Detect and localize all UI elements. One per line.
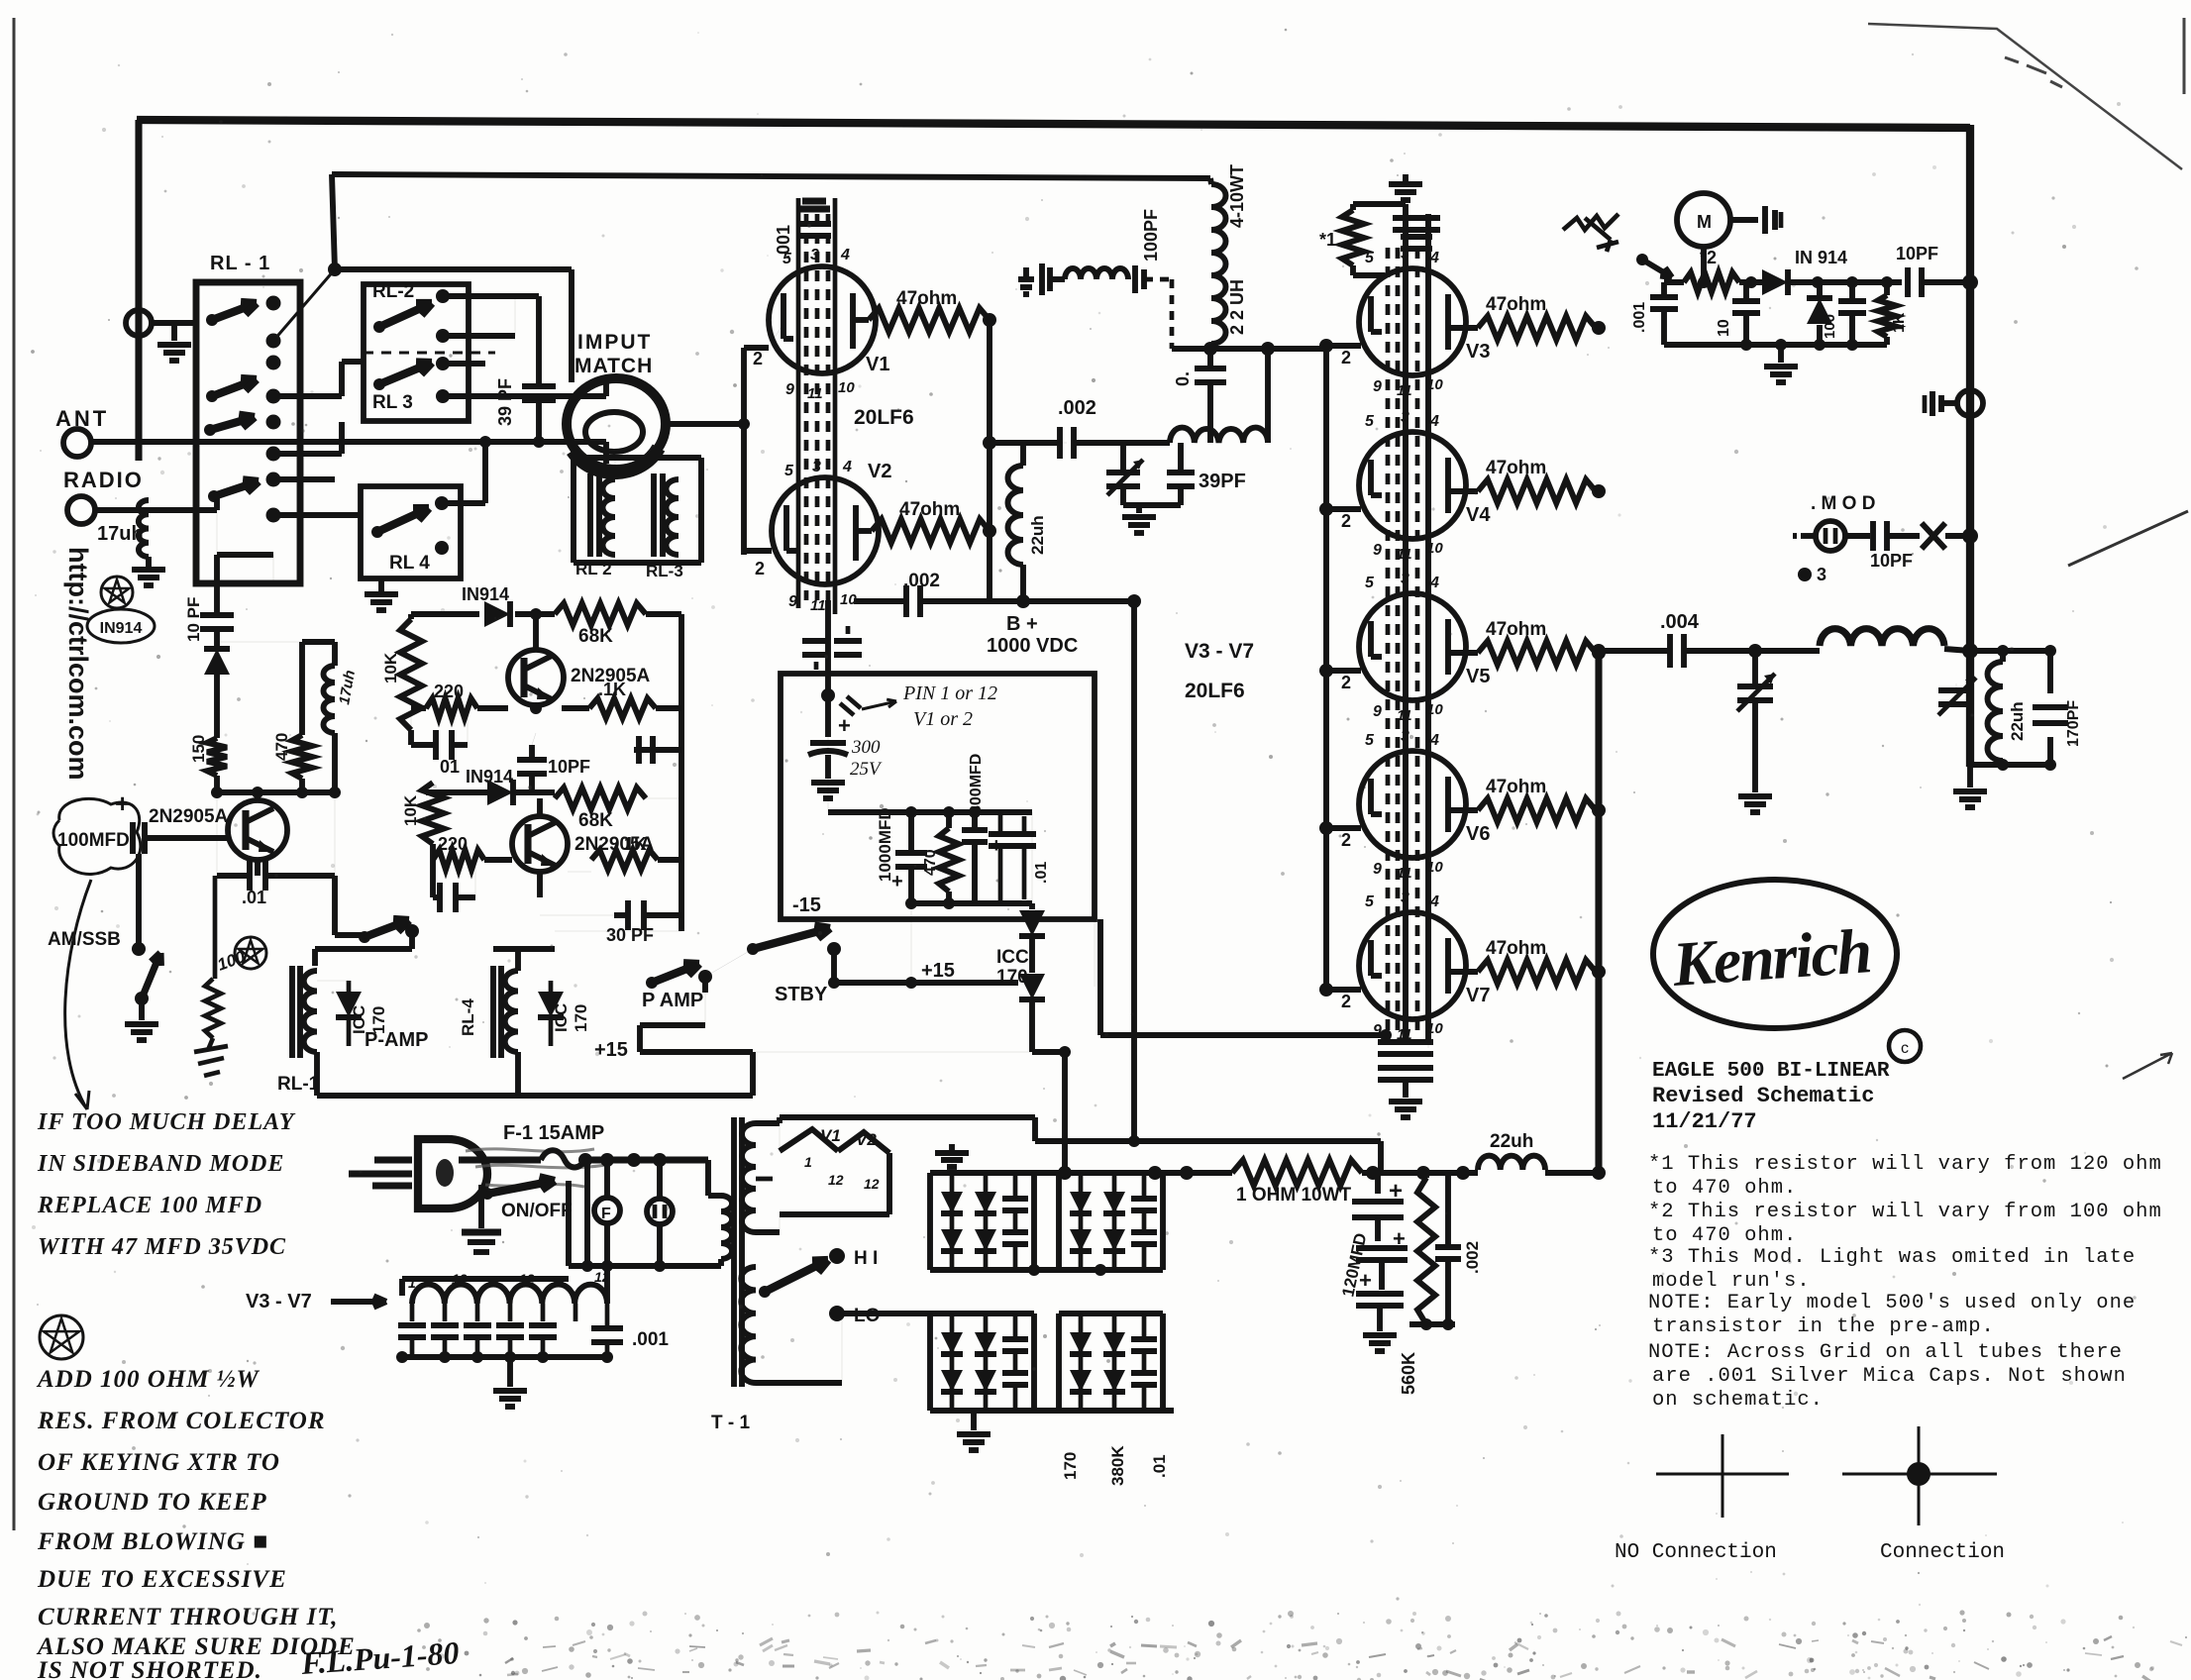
resistor 1 OHM 10WT: [1232, 1160, 1362, 1186]
svg-text:.001: .001: [632, 1329, 669, 1350]
ground below 17uh: [132, 567, 165, 573]
heater filament chain: [412, 1285, 607, 1304]
svg-text:RL 2: RL 2: [575, 560, 612, 578]
svg-text:300MFD: 300MFD: [968, 754, 985, 814]
tube V7 plate: [1445, 938, 1451, 994]
wire 560K .002 bottom: [1409, 1321, 1455, 1327]
svg-text:AM/SSB: AM/SSB: [48, 929, 121, 950]
wire J1 to RL-1: [152, 320, 196, 326]
ground meter net: [1778, 345, 1784, 363]
svg-text:.01: .01: [1033, 862, 1050, 884]
svg-text:10: 10: [1426, 376, 1443, 393]
wire grid bus V1V2: [741, 348, 747, 555]
wire *2 row: [1664, 279, 1684, 285]
svg-text:.002: .002: [1463, 1241, 1482, 1274]
svg-text:470: 470: [922, 849, 939, 876]
capacitor 30PF: [540, 914, 624, 916]
connector drive-in circle: [1957, 390, 1983, 416]
svg-text:RL-4: RL-4: [459, 998, 477, 1036]
lamp indicator circle: [647, 1199, 673, 1224]
svg-text:on schematic.: on schematic.: [1652, 1389, 1824, 1412]
wire cap to base: [196, 835, 228, 841]
capacitor 100 meter net: [1849, 282, 1855, 299]
terminal J1 circle on border: [126, 310, 152, 336]
RL-2 contact dots: [436, 289, 450, 303]
wire plate rail vertical: [1595, 651, 1602, 1173]
resistor 470: [299, 642, 305, 735]
svg-text:B +: B +: [1006, 613, 1038, 635]
svg-text:10: 10: [1426, 701, 1443, 718]
transformer RL3 core: [651, 473, 657, 557]
svg-text:IMPUT: IMPUT: [577, 331, 652, 354]
svg-text:5: 5: [782, 251, 792, 267]
wire to output coil: [1755, 648, 1820, 654]
tube V6 grid stub: [1326, 825, 1361, 831]
diode D4 IN914 output: [1762, 269, 1788, 295]
resistor 47ohm V5: [1448, 650, 1478, 656]
wire Q1 emitter down: [533, 705, 539, 708]
svg-text:DUE TO EXCESSIVE: DUE TO EXCESSIVE: [37, 1566, 287, 1593]
transformer RL3 winding: [667, 479, 679, 555]
svg-text:12: 12: [485, 1273, 501, 1289]
capacitor pin annotation: [840, 703, 854, 715]
RL-2 dashed travel line: [364, 352, 495, 355]
svg-text:9: 9: [1373, 542, 1382, 559]
svg-text:22uh: 22uh: [1028, 515, 1047, 555]
svg-text:4: 4: [1429, 893, 1439, 910]
variable capacitor output 2: [1955, 683, 1957, 687]
svg-text:3: 3: [1401, 409, 1409, 426]
antenna scribble mark: [1563, 214, 1618, 252]
wire M to row: [1701, 247, 1707, 282]
capacitor .002 PSU: [1445, 1173, 1451, 1244]
wire second top rail: [332, 174, 1210, 178]
capacitor 120MFD stack: [1375, 1173, 1381, 1194]
svg-text:T - 1: T - 1: [711, 1413, 750, 1433]
svg-text:10: 10: [1426, 540, 1443, 557]
svg-text:12: 12: [551, 1273, 567, 1289]
diode ICC 170 supply upper: [1031, 812, 1033, 903]
tube V7 envelope: [1359, 912, 1466, 1019]
svg-text:47ohm: 47ohm: [1486, 458, 1546, 478]
svg-text:REPLACE 100 MFD: REPLACE 100 MFD: [37, 1193, 262, 1218]
wire node A to toroid drop: [335, 266, 572, 272]
svg-text:RADIO: RADIO: [63, 468, 144, 492]
resistor 68K upper: [555, 603, 646, 625]
svg-text:11: 11: [1397, 865, 1412, 882]
svg-text:ICC: ICC: [996, 947, 1029, 968]
capacitor 300MFD 25V cathode: [825, 695, 831, 737]
wire +15 rail: [834, 980, 1018, 986]
connector RADIO circle: [67, 496, 95, 524]
svg-text:to 470 ohm.: to 470 ohm.: [1652, 1177, 1797, 1200]
tube V2 cathode: [783, 505, 789, 551]
svg-text:IF TOO MUCH DELAY: IF TOO MUCH DELAY: [37, 1109, 296, 1135]
svg-text:.1K: .1K: [598, 680, 626, 699]
svg-text:1: 1: [804, 1154, 812, 1170]
svg-text:IN914: IN914: [462, 584, 509, 604]
capacitor .01 keying: [217, 873, 250, 879]
switch P-AMP: [335, 932, 363, 938]
svg-text:47ohm: 47ohm: [1486, 619, 1546, 640]
svg-text:12: 12: [864, 1176, 880, 1192]
capacitor .01 supply: [998, 812, 1003, 832]
capacitor 10PF MOD: [1845, 533, 1870, 539]
svg-text:1000 VDC: 1000 VDC: [987, 635, 1078, 657]
resistor *2: [1684, 272, 1739, 292]
svg-text:transistor in the pre-amp.: transistor in the pre-amp.: [1652, 1315, 1995, 1338]
legend NO Connection symbol: [1656, 1473, 1789, 1476]
rectifier bridge lower-left: [930, 1311, 1034, 1316]
svg-text:F-1 15AMP: F-1 15AMP: [503, 1122, 604, 1144]
svg-text:4: 4: [842, 459, 852, 475]
svg-text:47ohm: 47ohm: [1486, 938, 1546, 959]
svg-text:68K: 68K: [578, 626, 613, 647]
svg-text:5: 5: [784, 463, 794, 479]
resistor 47ohm V3: [1448, 325, 1478, 331]
ground 120MFD: [1363, 1332, 1397, 1338]
wire RL-2 to 39PF cap: [443, 293, 539, 299]
inductor 100PF network: [1065, 268, 1128, 279]
resistor 1K meter net: [1884, 282, 1890, 295]
rectifier bridge lower-right: [1059, 1311, 1163, 1316]
svg-text:3: 3: [812, 459, 821, 475]
wire RL-1 row 520 to RL-4: [273, 512, 361, 518]
transistor Q3 2N2905A keying: [255, 792, 261, 800]
svg-text:+: +: [891, 871, 903, 892]
svg-text:Kenrich: Kenrich: [1670, 915, 1873, 999]
power box outline: [781, 674, 1095, 919]
svg-text:V3: V3: [1466, 341, 1490, 363]
svg-text:0.: 0.: [1173, 371, 1193, 386]
wire filament to right: [780, 1114, 1035, 1120]
resistor 560K: [1423, 1173, 1429, 1178]
rectifier bridge upper-left: [930, 1170, 1034, 1176]
svg-text:3: 3: [1401, 246, 1409, 262]
svg-text:3: 3: [1401, 890, 1409, 906]
svg-text:1K: 1K: [1891, 312, 1908, 333]
svg-text:12: 12: [519, 1271, 535, 1287]
svg-text:300: 300: [851, 737, 881, 758]
svg-text:are .001 Silver Mica Caps. Not: are .001 Silver Mica Caps. Not shown: [1652, 1365, 2127, 1388]
svg-text:.01: .01: [242, 888, 266, 907]
tube V7 cathode: [1368, 940, 1374, 976]
svg-text:.004: .004: [1660, 611, 1700, 633]
tube column dashed grids: [1386, 248, 1391, 1030]
tube V6 cathode: [1368, 779, 1374, 814]
wire RL-1 row 458 to right: [273, 451, 342, 457]
switch AM/SSB: [136, 854, 142, 943]
svg-text:22uh: 22uh: [1490, 1131, 1533, 1152]
node V3 plate rail: [1592, 321, 1606, 335]
capacitor 1000MFD: [908, 812, 914, 852]
svg-text:M: M: [1697, 212, 1712, 232]
copyright circle: [1889, 1030, 1921, 1062]
svg-text:*1 This resistor will vary fro: *1 This resistor will vary from 120 ohm: [1648, 1153, 2162, 1176]
svg-text:ICC: ICC: [552, 1003, 571, 1032]
svg-text:to 470 ohm.: to 470 ohm.: [1652, 1224, 1797, 1247]
wire drop to node A: [332, 174, 335, 269]
inductor 17uh second: [217, 641, 335, 643]
tube V6 plate: [1445, 777, 1451, 832]
svg-text:22uh: 22uh: [2008, 701, 2027, 741]
wire left border: [135, 120, 142, 461]
svg-text:+: +: [115, 788, 130, 818]
svg-text:9: 9: [1373, 703, 1382, 720]
svg-text:V1: V1: [866, 354, 889, 375]
svg-text:170PF: 170PF: [2065, 700, 2082, 747]
svg-text:+15: +15: [594, 1039, 628, 1061]
svg-text:NOTE: Across Grid on all tubes: NOTE: Across Grid on all tubes there: [1648, 1341, 2123, 1364]
svg-text:RL-1: RL-1: [277, 1074, 320, 1095]
filament leads V1 V2: [780, 1129, 889, 1153]
svg-text:2 2 UH: 2 2 UH: [1227, 279, 1247, 335]
wire B+ vertical center: [1131, 601, 1137, 1141]
wire bottom rail left section: [317, 1093, 753, 1099]
capacitor .004: [1667, 634, 1673, 668]
wire LO to bridge: [837, 1311, 930, 1316]
svg-text:2N2905A: 2N2905A: [149, 806, 229, 827]
wire Q3 emitter to .01 row: [255, 860, 261, 876]
svg-text:FROM BLOWING ■: FROM BLOWING ■: [37, 1528, 268, 1555]
wire plate node vertical: [987, 320, 992, 601]
wire meter net bottom bus: [1664, 342, 1887, 348]
meter M circle: [1677, 193, 1730, 247]
wire supply to bottom bus: [753, 1051, 1032, 1053]
wire plug to fuse: [459, 1156, 541, 1163]
resistor 47ohm V4: [1448, 488, 1478, 494]
svg-text:*1: *1: [1319, 230, 1336, 250]
diode D5 vertical: [1817, 282, 1823, 297]
capacitor 10PF mid: [517, 757, 547, 763]
wire plate output row: [1599, 648, 1670, 654]
X mark MOD: [1922, 523, 1945, 549]
RL-1 switch arm 2: [206, 390, 218, 402]
svg-text:5: 5: [1365, 575, 1375, 591]
svg-text:4: 4: [1429, 250, 1439, 266]
inductor 22uh output choke: [1478, 1156, 1545, 1170]
tube V5 plate: [1445, 619, 1451, 675]
diode ICC 170 supply lower: [1019, 974, 1045, 999]
transformer secondary upper winding: [742, 1123, 756, 1232]
switch HI/LO: [829, 1248, 845, 1264]
tube column long rails: [1403, 204, 1408, 1040]
AC plug prongs: [374, 1156, 412, 1163]
resistor 68K lower: [555, 787, 646, 809]
svg-text:11/21/77: 11/21/77: [1652, 1109, 1757, 1134]
wire bridge mid rail: [930, 1267, 1163, 1273]
wire keying row2: [426, 789, 487, 795]
svg-text:150: 150: [189, 735, 208, 763]
RL-2 switch arm lower: [373, 378, 385, 390]
wire grid bus column: [1323, 349, 1329, 990]
tube V4 grid stub: [1326, 506, 1361, 512]
relay RL-2 box: [364, 284, 469, 421]
capacitor keying electrolytic: [130, 822, 136, 854]
svg-text:220: 220: [438, 834, 468, 854]
svg-text:RL-2: RL-2: [372, 281, 414, 302]
transformer RL2 core: [587, 473, 593, 557]
resistor 47ohm V7: [1448, 969, 1478, 975]
tube V1 cathode: [781, 293, 786, 339]
RL-2 switch arm upper: [373, 321, 385, 333]
svg-text:.002: .002: [1058, 397, 1096, 419]
svg-text:5: 5: [1365, 893, 1375, 910]
wire top border: [137, 120, 1970, 128]
resistor 47ohm V6: [1448, 807, 1478, 813]
heater bypass caps: [398, 1322, 426, 1328]
svg-text:25V: 25V: [850, 759, 883, 780]
svg-text:3: 3: [1401, 571, 1409, 587]
svg-text:10: 10: [1426, 859, 1443, 876]
svg-text:3: 3: [810, 247, 819, 263]
variable capacitor output 1: [1752, 651, 1758, 683]
svg-text:1: 1: [408, 1275, 416, 1291]
svg-text:1K: 1K: [624, 834, 647, 854]
svg-text:EAGLE 500 BI-LINEAR: EAGLE 500 BI-LINEAR: [1652, 1060, 1890, 1083]
capacitor .002 interstage: [990, 440, 1060, 446]
svg-text:RL - 1: RL - 1: [210, 253, 270, 274]
svg-text:10PF: 10PF: [1896, 244, 1938, 263]
RL-1 switch arm 1: [206, 314, 218, 326]
capacitor at 100PF coil left: [1039, 263, 1045, 295]
wire Q2 emitter: [537, 872, 543, 897]
curly arrow annotation: [65, 880, 91, 1109]
heater ground bus: [402, 1354, 607, 1360]
ground below AM/SSB switch: [139, 998, 145, 1020]
svg-text:-15: -15: [792, 894, 821, 916]
ground scratch: [194, 1046, 228, 1052]
wire cathode cluster: [825, 600, 831, 695]
svg-text:.01: .01: [1150, 1454, 1169, 1478]
tube V4 plate: [1445, 458, 1451, 513]
tube V1 plate: [850, 293, 856, 349]
pencil mark right: [2068, 511, 2188, 566]
svg-text:47ohm: 47ohm: [899, 499, 960, 520]
svg-text:9: 9: [1373, 378, 1382, 395]
svg-text:IS NOT SHORTED.: IS NOT SHORTED.: [37, 1657, 262, 1680]
svg-text:GROUND TO KEEP: GROUND TO KEEP: [38, 1489, 267, 1516]
resistor 1K lower: [568, 871, 591, 873]
capacitor 10PF keying: [214, 555, 220, 614]
svg-text:9: 9: [788, 593, 797, 610]
diode ICC 170 on RL-4 coil: [538, 992, 564, 1017]
svg-text:OF KEYING XTR TO: OF KEYING XTR TO: [38, 1449, 280, 1476]
wire P-AMP to RL coils: [409, 931, 415, 949]
relay RL-1 box: [196, 282, 300, 583]
capacitor 01 lower: [430, 844, 436, 897]
diode D3 IN914: [487, 780, 513, 805]
node V4 plate rail: [1592, 484, 1606, 498]
svg-text:5: 5: [1365, 732, 1375, 749]
svg-text:2: 2: [753, 349, 763, 368]
resistor 10K upper: [408, 614, 414, 619]
svg-text:RL-3: RL-3: [646, 562, 683, 580]
resistor 470 supply: [939, 828, 959, 892]
tube V6 envelope: [1359, 751, 1466, 858]
svg-text:IN SIDEBAND MODE: IN SIDEBAND MODE: [37, 1151, 284, 1177]
svg-text:CURRENT THROUGH IT,: CURRENT THROUGH IT,: [38, 1604, 339, 1630]
svg-text:V3 - V7: V3 - V7: [1185, 640, 1254, 663]
svg-text:9: 9: [785, 381, 794, 398]
RL-4 contact dots: [435, 496, 449, 510]
svg-text:IN914: IN914: [100, 620, 143, 637]
ground 100PF: [1023, 267, 1029, 279]
transistor Q2 2N2905A: [512, 816, 568, 872]
RL-4 switch arm: [371, 526, 383, 538]
resistor 220 upper: [410, 708, 412, 730]
capacitor 100MFD blob: [53, 798, 141, 874]
svg-text:c: c: [1901, 1040, 1909, 1057]
svg-text:10K: 10K: [401, 794, 420, 826]
svg-text:100: 100: [1822, 314, 1838, 339]
page edge line left: [13, 18, 16, 1530]
svg-text:10K: 10K: [381, 652, 400, 683]
inductor 17uh: [139, 500, 149, 557]
capacitor 10PF meter: [1905, 267, 1911, 297]
svg-text:39 PF: 39 PF: [495, 378, 515, 426]
wire AC rails: [566, 1181, 572, 1266]
wire keying net top row: [411, 611, 479, 617]
wire RL-1 bottom to keying chain: [217, 552, 273, 558]
wire bottom B+ bus: [930, 1170, 1232, 1176]
capacitor .001 meter net: [1650, 294, 1678, 300]
svg-text:RL 4: RL 4: [389, 553, 430, 574]
wire box to V7 bottom rail: [1094, 919, 1095, 987]
svg-text:01: 01: [440, 757, 460, 777]
ground variable cap 1: [1738, 793, 1772, 799]
tube V1V2 internal columns: [796, 198, 801, 608]
tube V3 plate: [1445, 294, 1451, 350]
variable capacitor tank: [1120, 443, 1126, 470]
svg-text:100PF: 100PF: [1141, 209, 1161, 262]
svg-text:10PF: 10PF: [1870, 551, 1913, 571]
ground cathode cap: [811, 780, 845, 786]
svg-text:V7: V7: [1466, 985, 1490, 1006]
tube V2 plate: [853, 505, 859, 561]
switch P AMP second: [646, 977, 658, 989]
svg-text:12: 12: [828, 1172, 844, 1188]
relay coil RL-4 drive: [490, 966, 496, 1058]
capacitor 100PF right: [1132, 265, 1138, 293]
transformer secondary lower winding: [741, 1267, 756, 1383]
svg-text:+15: +15: [921, 960, 955, 982]
wire right loop to P-AMP switch: [334, 792, 336, 876]
tube V1 envelope: [769, 266, 876, 373]
capacitor .01 plate: [1207, 349, 1213, 367]
tube V2 envelope: [772, 477, 879, 584]
tube V3 envelope: [1359, 268, 1466, 375]
capacitor .001 grid top: [797, 221, 831, 227]
legend Connection symbol: [1842, 1473, 1997, 1476]
diode D1 IN914 keying: [214, 630, 220, 648]
circled star mark 2: [235, 937, 266, 969]
transformer T-1 core: [731, 1117, 737, 1387]
svg-text:2: 2: [1341, 992, 1351, 1011]
wire RL-4 contact up: [442, 500, 485, 506]
wire RL-1 coil to bottom rail: [314, 1052, 320, 1096]
svg-text:4-10WT: 4-10WT: [1227, 164, 1247, 228]
wire RL-4 coil connections: [515, 949, 521, 971]
svg-text:V1: V1: [820, 1126, 841, 1145]
svg-text:.002: .002: [903, 571, 940, 591]
RL-1 switch arm 3: [204, 424, 216, 436]
diode D2 IN914: [484, 601, 510, 627]
svg-text:V1 or 2: V1 or 2: [913, 708, 973, 730]
svg-text:Revised Schematic: Revised Schematic: [1652, 1084, 1874, 1108]
svg-text:170: 170: [572, 1004, 590, 1032]
wire heater top rail: [402, 1276, 569, 1282]
